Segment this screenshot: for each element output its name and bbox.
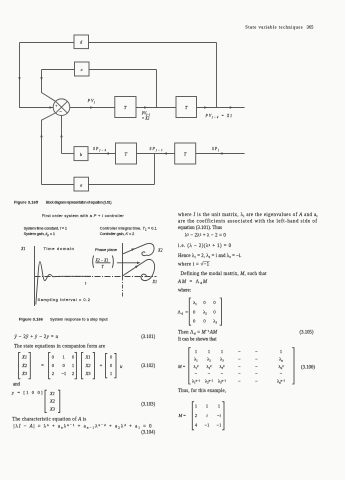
- svg-text:λ₁: λ₁: [193, 300, 197, 305]
- svg-text:X2: X2: [157, 247, 163, 252]
- wire: bottom feedback line through box a: [42, 184, 155, 186]
- svg-text:1: 1: [206, 404, 208, 409]
- svg-text:System response to a step inpu: System response to a step input: [50, 318, 109, 322]
- svg-text:Hence λ₁ = 2, λ₂ = i and λ₃ =: Hence λ₁ = 2, λ₂ = i and λ₃ = −i.: [178, 254, 242, 259]
- wire: main row PVj line: [70, 107, 115, 109]
- svg-text:λ₂: λ₂: [203, 309, 207, 314]
- svg-text:1: 1: [280, 349, 282, 354]
- svg-text:λ₃: λ₃: [220, 357, 224, 362]
- svg-text:(3.106): (3.106): [301, 366, 315, 371]
- arrow after T2: [204, 106, 207, 108]
- svg-text:ÿ − 2ÿ + ẏ − 2y = u: ÿ − 2ÿ + ẏ − 2y = u: [14, 335, 59, 340]
- box b: [74, 147, 88, 161]
- svg-text:−1: −1: [205, 423, 210, 428]
- svg-text:|λI − A| = λn + anλn−1 + an−1λ: |λI − A| = λn + anλn−1 + an−1λn−2 + a2λ2…: [14, 423, 153, 430]
- svg-text:(3.105): (3.105): [300, 330, 314, 335]
- svg-text:(3.103): (3.103): [141, 403, 155, 408]
- svg-text:Thus, for this example,: Thus, for this example,: [178, 389, 226, 394]
- arrowhead on lower trajectory: [135, 265, 138, 268]
- svg-text:State variable techniques: State variable techniques: [245, 24, 303, 29]
- svg-text:X1: X1: [49, 391, 55, 396]
- svg-text:Time domain: Time domain: [44, 246, 74, 251]
- svg-text:where I is the unit matrix, λi: where I is the unit matrix, λi are the e…: [178, 213, 318, 218]
- svg-text:Ẋ1: Ẋ1: [21, 355, 27, 360]
- svg-text:365: 365: [307, 24, 315, 29]
- svg-text:The characteristic equation of: The characteristic equation of A is: [12, 418, 86, 423]
- svg-text:1: 1: [195, 349, 197, 354]
- phase-plane vertical axis: [122, 243, 124, 277]
- arrow (left) on T3-T4 segment: [164, 152, 167, 154]
- svg-text:equation (3.101). Thus: equation (3.101). Thus: [178, 226, 222, 231]
- arrow at output: [230, 106, 233, 108]
- svg-text:where i = √−1: where i = √−1: [178, 261, 210, 267]
- svg-text:−1: −1: [61, 371, 67, 376]
- svg-text:λ₃: λ₃: [213, 319, 217, 324]
- svg-text:are the coefficients associate: are the coefficients associated with the…: [178, 220, 317, 225]
- arrow (left) on SPj line: [219, 152, 222, 154]
- arrowhead on upper trajectory: [131, 248, 134, 251]
- svg-text:T: T: [125, 151, 128, 156]
- svg-text:X2: X2: [49, 399, 56, 404]
- svg-text:1: 1: [208, 349, 210, 354]
- svg-text:Then Λd = M−1AM: Then Λd = M−1AM: [178, 329, 218, 336]
- wire: second feedback line (X2 path): [42, 69, 157, 71]
- svg-text:X3: X3: [49, 406, 56, 411]
- box T1: [115, 97, 136, 118]
- svg-text:and: and: [13, 383, 21, 388]
- svg-text:Defining the modal matrix, M,: Defining the modal matrix, M, such that: [181, 272, 268, 277]
- svg-text:Block diagram representation o: Block diagram representation of equation…: [46, 201, 112, 205]
- arrow from fraction to trajectory: [117, 262, 139, 264]
- svg-text:First order system with a P +: First order system with a P + I controll…: [42, 213, 125, 218]
- wire: left outer vertical down to summer: [20, 43, 54, 108]
- svg-text:Phase plane: Phase plane: [95, 247, 118, 252]
- box d: [74, 35, 89, 49]
- svg-text:T: T: [185, 105, 188, 110]
- svg-text:−: −: [59, 109, 62, 114]
- matrix M general (3.106): [177, 348, 294, 385]
- svg-text:T: T: [184, 151, 187, 156]
- wire: T3 to T4: [137, 153, 175, 155]
- svg-text:1: 1: [218, 404, 220, 409]
- wire: right vertical from X2 junction up to second line: [156, 70, 158, 108]
- svg-text:+: +: [100, 364, 103, 369]
- svg-text:X2 − X1: X2 − X1: [95, 259, 109, 263]
- summing junction: [53, 99, 70, 116]
- arrow after T1: [144, 106, 147, 108]
- arrow on PVj line: [90, 106, 93, 108]
- svg-text:The state equations in compani: The state equations in companion form ar…: [14, 345, 105, 350]
- svg-text:X3: X3: [84, 371, 91, 376]
- wire: b to T3: [88, 153, 116, 155]
- svg-text:Ẋ3: Ẋ3: [21, 371, 28, 376]
- wire: a feedback riser (bottom line to summer): [42, 113, 56, 185]
- svg-text:Sampling interval = 0.2: Sampling interval = 0.2: [38, 297, 91, 302]
- wire: SPj input line: [196, 153, 245, 155]
- lower spiral trajectory (X1): [122, 259, 155, 280]
- svg-text:(3.102): (3.102): [141, 364, 155, 369]
- svg-text:Figure 3.166: Figure 3.166: [19, 318, 43, 322]
- svg-text:1: 1: [221, 349, 223, 354]
- box T3: [116, 143, 137, 164]
- arrow (left) on b-T3 segment: [106, 152, 109, 154]
- svg-text:λ₂²: λ₂²: [207, 364, 213, 369]
- svg-text:Ẋ2: Ẋ2: [21, 363, 28, 368]
- svg-text:Figure 3.165: Figure 3.165: [14, 201, 38, 205]
- time-domain response curve: [36, 262, 91, 305]
- svg-text:λ₁: λ₁: [194, 357, 198, 362]
- upper spiral trajectory (X2): [123, 243, 154, 255]
- wire: row2 line from b riser corner: [62, 153, 75, 155]
- arrow down on c drop: [40, 77, 42, 80]
- eq 3.103: [11, 390, 60, 413]
- matrix M example: [178, 402, 225, 430]
- svg-text:λ₁²: λ₁²: [194, 364, 200, 369]
- svg-text:(3.104): (3.104): [141, 431, 155, 436]
- svg-text:2: 2: [195, 413, 197, 418]
- wire: top feedback line (X1 path): [20, 42, 217, 44]
- svg-text:λ³ − 2λ² + λ − 2 = 0: λ³ − 2λ² + λ − 2 = 0: [185, 233, 227, 239]
- box c: [75, 62, 90, 76]
- svg-text:System time constant, τ = 1: System time constant, τ = 1: [24, 225, 68, 230]
- svg-text:= X2: = X2: [142, 117, 150, 121]
- svg-text:−1: −1: [217, 423, 222, 428]
- wire: output line after T2: [197, 107, 245, 109]
- arrow up on a riser: [40, 134, 42, 137]
- svg-text:λ₂: λ₂: [207, 357, 211, 362]
- box T2: [176, 97, 197, 118]
- box T4: [175, 143, 196, 164]
- wire: between T1 and T2: [136, 107, 176, 109]
- svg-text:where:: where:: [178, 289, 191, 294]
- arrow down on outer vertical: [18, 77, 20, 80]
- wire: right vertical from X1 junction up to top line: [216, 43, 218, 108]
- matrix Lambda_d: [178, 298, 222, 325]
- svg-text:X1: X1: [84, 355, 90, 360]
- svg-text:(3.101): (3.101): [141, 335, 155, 340]
- eq 3.102 matrices: [19, 352, 116, 378]
- svg-text:M =: M =: [178, 413, 187, 418]
- svg-text:X2: X2: [84, 363, 91, 368]
- svg-text:1: 1: [195, 404, 197, 409]
- svg-text:λ₃²: λ₃²: [220, 364, 226, 369]
- wire: b riser from row2 corner to summer bottom: [61, 116, 63, 154]
- svg-text:i.e. (λ − 2)(λ² + 1) = 0: i.e. (λ − 2)(λ² + 1) = 0: [178, 243, 232, 249]
- svg-text:It can be shown that: It can be shown that: [178, 338, 217, 343]
- svg-text:AM = ΛdM: AM = ΛdM: [177, 280, 208, 285]
- svg-text:Controller gain, K = 2: Controller gain, K = 2: [100, 231, 135, 236]
- wire: c feedback drop and diagonal into summer: [42, 70, 56, 102]
- svg-text:=: =: [41, 364, 44, 369]
- time-domain vertical axis: [34, 246, 36, 306]
- box a: [74, 177, 89, 191]
- wire: SPj-1 tap down to bottom line: [154, 154, 156, 185]
- radical vinculum over -1: [203, 261, 210, 263]
- svg-text:y = [1 0 0]: y = [1 0 0]: [11, 390, 43, 395]
- arrow into summer (left input): [50, 106, 53, 108]
- arrow up on b riser: [60, 134, 62, 137]
- svg-text:T: T: [124, 105, 127, 110]
- svg-text:c: c: [81, 67, 83, 72]
- svg-text:X1: X1: [152, 279, 158, 284]
- svg-text:X1: X1: [20, 246, 26, 251]
- horizontal dash-dot axis: [35, 276, 157, 278]
- svg-text:M =: M =: [177, 364, 186, 369]
